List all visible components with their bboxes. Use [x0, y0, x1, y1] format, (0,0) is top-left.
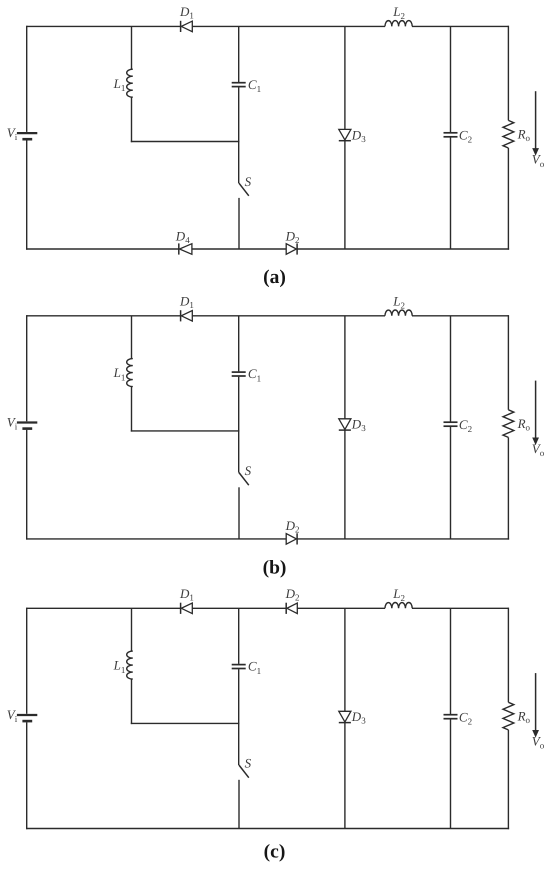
wire: left rail upper [26, 315, 28, 421]
wire: L1 branch bottom [131, 679, 133, 724]
wire: left rail lower [26, 140, 28, 249]
wire: D3 branch bottom [344, 141, 346, 249]
diode D1 [180, 310, 182, 321]
inductor L1 [127, 651, 133, 679]
wire: C1 to switch [238, 669, 240, 723]
wire: L1 branch top [131, 316, 133, 359]
wire: switch lower lead [238, 780, 240, 829]
wire: top rail D1 to L2 [192, 25, 385, 27]
capacitor C1 [232, 82, 246, 84]
wire: C2 branch top [450, 608, 452, 714]
wire: L1 branch top [131, 608, 133, 651]
wire: switch upper lead [238, 723, 240, 765]
inductor L2 [385, 310, 412, 316]
wire: D3 branch top [344, 316, 346, 419]
svg-text:S: S [245, 463, 252, 478]
resistor Ro [503, 410, 514, 438]
switch S blade [239, 473, 249, 486]
wire: right rail upper [507, 315, 509, 410]
wire: switch upper lead [238, 142, 240, 184]
inductor L2 [385, 603, 412, 609]
wire: bottom rail left of D2 [26, 538, 286, 540]
diode D2 [286, 534, 296, 545]
wire: bottom rail [26, 828, 509, 830]
diode D3 [339, 419, 351, 430]
wire: right rail lower [507, 148, 509, 250]
wire: D3 branch bottom [344, 430, 346, 539]
svg-text:S: S [245, 756, 252, 771]
wire: bottom rail right of D2 [297, 538, 509, 540]
wire: D3 branch top [344, 26, 346, 129]
wire: C2 branch bottom [450, 138, 452, 250]
inductor L1 [127, 359, 133, 387]
wire: right rail lower [507, 730, 509, 829]
inductor L2 [385, 21, 412, 27]
wire: right rail upper [507, 26, 509, 121]
battery Vi [17, 421, 37, 423]
wire: top rail left of D1 [27, 25, 181, 27]
switch S blade [239, 183, 249, 196]
wire: top rail D1 to L2 [192, 315, 385, 317]
diode D1 [180, 21, 182, 32]
wire: link L1 to switch node [131, 722, 240, 724]
wire: bottom rail D4 to D2 [192, 248, 286, 250]
wire: L1 branch top [131, 26, 133, 69]
wire: C1 branch top [238, 316, 240, 372]
wire: link L1 to switch node [131, 430, 240, 432]
wire: top rail right of L2 [412, 25, 508, 27]
resistor Ro [503, 702, 514, 730]
wire: right rail lower [507, 437, 509, 539]
wire: top rail D1 to D2 [192, 607, 286, 609]
wire: C2 branch bottom [450, 427, 452, 539]
output arrow [535, 91, 537, 149]
wire: top rail left of D1 [27, 607, 181, 609]
wire: bottom rail right of D2 [297, 248, 509, 250]
wire: D3 branch bottom [344, 723, 346, 829]
svg-text:(a): (a) [263, 267, 286, 288]
wire: switch upper lead [238, 431, 240, 473]
wire: C1 branch top [238, 608, 240, 664]
wire: left rail lower [26, 722, 28, 829]
svg-text:S: S [245, 174, 252, 189]
diode D3 [339, 711, 351, 722]
wire: C1 to switch [238, 377, 240, 431]
capacitor C1 [232, 371, 246, 373]
wire: L1 branch bottom [131, 97, 133, 142]
diode D2 [285, 603, 287, 614]
switch S blade [239, 765, 249, 778]
wire: top rail right of L2 [412, 315, 508, 317]
wire: top rail D2 to L2 [297, 607, 385, 609]
inductor L1 [127, 69, 133, 97]
output arrow [535, 673, 537, 731]
capacitor C2 [444, 132, 458, 134]
wire: left rail lower [26, 430, 28, 540]
diode D4 [178, 243, 180, 254]
wire: D3 branch top [344, 608, 346, 711]
svg-text:(b): (b) [263, 558, 287, 579]
wire: C1 branch top [238, 26, 240, 82]
wire: switch lower lead [238, 198, 240, 249]
capacitor C2 [444, 421, 458, 423]
diode D2 [286, 244, 296, 255]
wire: C2 branch top [450, 316, 452, 422]
battery Vi [17, 714, 37, 716]
output arrow [535, 381, 537, 439]
resistor Ro [503, 120, 514, 148]
battery Vi [17, 132, 37, 134]
wire: left rail upper [26, 608, 28, 714]
wire: C1 to switch [238, 87, 240, 141]
wire: C2 branch bottom [450, 719, 452, 828]
wire: top rail right of L2 [412, 607, 508, 609]
wire: top rail left of D1 [27, 315, 181, 317]
wire: left rail upper [26, 26, 28, 132]
svg-text:(c): (c) [264, 842, 286, 863]
wire: C2 branch top [450, 26, 452, 132]
wire: L1 branch bottom [131, 387, 133, 432]
wire: link L1 to switch node [131, 141, 240, 143]
capacitor C2 [444, 714, 458, 716]
diode D1 [180, 603, 182, 614]
capacitor C1 [232, 664, 246, 666]
wire: right rail upper [507, 608, 509, 703]
wire: bottom rail left of D4 [26, 248, 179, 250]
diode D3 [339, 129, 351, 140]
wire: switch lower lead [238, 487, 240, 539]
